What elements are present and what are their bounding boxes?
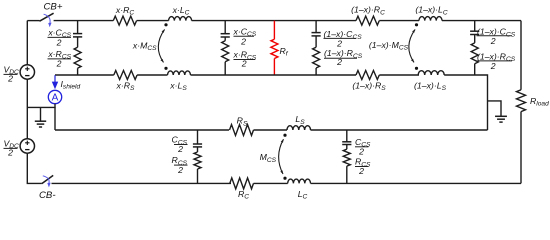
svg-text:2: 2 bbox=[358, 166, 364, 176]
wire shield row 3 bbox=[191, 74, 357, 76]
svg-text:CB+: CB+ bbox=[44, 2, 63, 13]
resistor x*RC bbox=[113, 16, 136, 25]
wire branch4 top bbox=[474, 21, 476, 32]
wire right edge top bbox=[520, 21, 522, 90]
label (1-x)*RCS/2 branch4 bbox=[477, 51, 516, 71]
label CCS/2 branch5 bbox=[172, 135, 188, 155]
label V2 value VDC/2 bbox=[4, 138, 20, 157]
label LS bbox=[295, 114, 305, 126]
wire branch1 bottom bbox=[77, 68, 79, 75]
capacitor CCS/2 branch6 bbox=[342, 142, 351, 145]
label x*LS bbox=[169, 80, 187, 92]
coupling dot LS bbox=[283, 134, 286, 137]
ground right bbox=[495, 116, 507, 122]
wire ground2 stub bbox=[488, 101, 502, 116]
inductor (1-x)*LS bbox=[418, 71, 444, 75]
label (1-x)*LS bbox=[414, 80, 447, 92]
resistor (1-x)*RC bbox=[356, 16, 379, 25]
wire left rail mid bbox=[26, 79, 28, 139]
wire branch5 mid bbox=[197, 147, 199, 152]
label x*CCS/2 bbox=[47, 27, 71, 47]
wire top bus segment 5 bbox=[442, 20, 521, 22]
wire branch6 top bbox=[346, 130, 348, 142]
wire Rf top lead bbox=[273, 21, 275, 40]
wire branch5 top bbox=[197, 130, 199, 144]
inductor x*LC bbox=[169, 17, 192, 21]
svg-text:2: 2 bbox=[336, 57, 342, 67]
svg-text:2: 2 bbox=[56, 59, 62, 69]
voltage source V1 VDC/2 top bbox=[20, 65, 34, 79]
svg-text:2: 2 bbox=[177, 165, 183, 175]
resistor RCS/2 branch5 bbox=[194, 152, 201, 169]
capacitor x*CCS/2 bbox=[73, 34, 82, 37]
mutual coupling arc x*MCS bbox=[158, 29, 164, 62]
wire branch4 mid bbox=[474, 35, 476, 43]
wire bottom bus 1 bbox=[52, 182, 232, 184]
resistor RCS/2 branch6 bbox=[343, 149, 350, 166]
label x*RC bbox=[115, 5, 135, 17]
wire inner row 2 bbox=[254, 129, 288, 131]
label MCS bbox=[260, 152, 277, 164]
wire shield row 2 bbox=[137, 74, 167, 76]
label CB- bbox=[39, 190, 56, 201]
capacitor x*CCS/2 branch2 bbox=[221, 34, 230, 37]
resistor RC bbox=[230, 178, 254, 189]
wire inner row right bbox=[311, 129, 488, 131]
label V1 value VDC/2 bbox=[4, 64, 20, 83]
label (1-x)*CCS/2 branch4 bbox=[477, 27, 516, 47]
wire shield row 4 bbox=[379, 74, 419, 76]
resistor Rload bbox=[517, 90, 526, 112]
wire branch1 top bbox=[77, 21, 79, 34]
coupling dot x*LC bbox=[164, 23, 167, 26]
switch CB- closing arrow bbox=[43, 176, 51, 188]
resistor x*RS bbox=[114, 71, 137, 80]
svg-text:A: A bbox=[52, 92, 59, 103]
label (1-x)*RS bbox=[352, 80, 386, 92]
current arrow Ishield bbox=[52, 75, 58, 89]
wire branch1 mid bbox=[77, 37, 79, 47]
switch CB+ bbox=[40, 13, 54, 21]
label x*MCS bbox=[132, 40, 157, 52]
label RCS/2 branch5 bbox=[172, 155, 188, 175]
wire top bus segment 1 bbox=[54, 20, 114, 22]
resistor Rf bbox=[271, 39, 278, 58]
wire branch4 bottom bbox=[474, 64, 476, 75]
mutual coupling arc MCS bbox=[279, 139, 284, 174]
wire branch3 bottom bbox=[315, 68, 317, 75]
inductor x*LS bbox=[168, 71, 191, 75]
resistor RS bbox=[230, 125, 254, 136]
label LC bbox=[298, 189, 308, 201]
wire bottom-left rail bbox=[27, 153, 42, 183]
coupling dot x*LS bbox=[164, 67, 167, 70]
wire shield row left bbox=[55, 74, 114, 76]
wire branch2 bottom bbox=[224, 62, 226, 75]
switch CB- bbox=[42, 175, 53, 183]
label CB+ bbox=[44, 2, 63, 13]
coupling dot (1-x)*LS bbox=[415, 67, 418, 70]
capacitor CCS/2 branch5 bbox=[193, 144, 202, 147]
svg-text:2: 2 bbox=[490, 36, 496, 46]
resistor x*RCS/2 branch2 bbox=[222, 41, 229, 62]
ground left bbox=[35, 121, 46, 127]
svg-text:2: 2 bbox=[358, 147, 364, 157]
svg-text:2: 2 bbox=[7, 148, 13, 158]
label x*RCS/2 branch2 bbox=[233, 50, 257, 69]
wire top bus segment 3 bbox=[192, 20, 356, 22]
svg-text:2: 2 bbox=[336, 39, 342, 49]
label CCS/2 branch6 bbox=[355, 137, 371, 157]
coupling dot (1-x)*LC bbox=[415, 23, 418, 26]
wire ammeter to mid rail bbox=[27, 104, 55, 108]
wire right edge bottom bbox=[520, 112, 522, 184]
wire bottom bus 3 bbox=[311, 182, 522, 184]
wire Rf bottom lead bbox=[273, 59, 275, 76]
wire branch2 top bbox=[224, 21, 226, 34]
wire ammeter down to inner loop bbox=[54, 107, 56, 130]
label (1-x)*CCS/2 branch3 bbox=[324, 29, 363, 48]
inductor LC bbox=[288, 179, 311, 183]
inductor LS bbox=[287, 126, 311, 130]
label x*LC bbox=[172, 5, 190, 17]
svg-text:2: 2 bbox=[490, 61, 496, 71]
label Rf bbox=[280, 46, 289, 58]
svg-text:2: 2 bbox=[177, 144, 183, 154]
label (1-x)*RC bbox=[351, 5, 385, 17]
label RC bbox=[238, 189, 249, 201]
wire top bus segment 2 bbox=[137, 20, 169, 22]
wire top-left rail bbox=[26, 21, 28, 65]
svg-text:2: 2 bbox=[241, 59, 247, 69]
label x*RCS/2 bbox=[47, 49, 71, 69]
svg-text:2: 2 bbox=[7, 74, 13, 84]
label RS bbox=[237, 116, 248, 128]
label x*RS bbox=[116, 80, 136, 92]
wire shield row right bbox=[444, 75, 487, 130]
svg-text:2: 2 bbox=[240, 37, 246, 47]
wire bottom bus 2 bbox=[254, 182, 288, 184]
wire branch3 top bbox=[315, 21, 317, 33]
ammeter A1 bbox=[48, 90, 61, 103]
switch CB+ closing arrow bbox=[44, 14, 52, 27]
wire branch6 bottom bbox=[346, 166, 348, 183]
svg-text:CB-: CB- bbox=[39, 190, 56, 201]
mutual coupling arc (1-x)*MCS bbox=[409, 29, 415, 62]
wire top bus segment 4 bbox=[379, 20, 419, 22]
wire branch6 mid bbox=[346, 145, 348, 150]
label RCS/2 branch6 bbox=[355, 157, 371, 177]
svg-text:2: 2 bbox=[56, 37, 62, 47]
label x*CCS/2 branch2 bbox=[233, 26, 257, 46]
coupling dot LC bottom bbox=[283, 177, 286, 180]
label Rload bbox=[530, 96, 549, 108]
label Ishield bbox=[61, 79, 81, 91]
capacitor (1-x)*CCS/2 branch4 bbox=[470, 31, 479, 34]
resistor x*RCS/2 bbox=[74, 47, 81, 68]
capacitor (1-x)*CCS/2 branch3 bbox=[312, 33, 321, 36]
resistor (1-x)*RS bbox=[356, 71, 379, 80]
wire ground1 stub bbox=[40, 107, 42, 121]
wire branch3 mid bbox=[315, 36, 317, 47]
wire branch5 bottom bbox=[197, 169, 199, 183]
label (1-x)*LC bbox=[415, 5, 448, 17]
voltage source V2 VDC/2 bottom bbox=[20, 139, 34, 153]
label (1-x)*MCS bbox=[369, 40, 409, 52]
inductor (1-x)*LC bbox=[419, 17, 442, 21]
resistor (1-x)*RCS/2 branch4 bbox=[471, 43, 478, 64]
wire top bus left stub bbox=[27, 20, 39, 22]
wire inner row left bbox=[55, 129, 229, 131]
label (1-x)*RCS/2 branch3 bbox=[324, 48, 363, 67]
resistor (1-x)*RCS/2 branch3 bbox=[313, 47, 320, 68]
wire branch2 mid bbox=[224, 37, 226, 41]
